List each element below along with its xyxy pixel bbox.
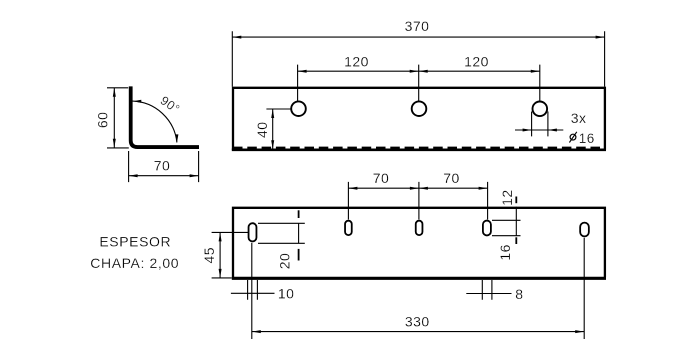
svg-text:70: 70 xyxy=(443,170,460,186)
dimension 120 text left xyxy=(344,54,369,70)
dimension 45 line xyxy=(219,232,221,278)
svg-text:ESPESOR: ESPESOR xyxy=(99,234,171,250)
svg-text:16: 16 xyxy=(579,131,595,146)
dimension 330 extension lines xyxy=(252,238,584,339)
hole 3 xyxy=(533,102,548,117)
dimension 45 arrows xyxy=(219,232,222,278)
dimension 70 arrows xyxy=(129,174,199,177)
svg-text:70: 70 xyxy=(154,157,171,173)
front view bend hidden dashed line xyxy=(233,147,605,149)
dimension 70 70 line xyxy=(348,187,487,189)
svg-text:60: 60 xyxy=(95,112,111,129)
dimension 10 line xyxy=(231,292,275,294)
svg-text:40: 40 xyxy=(254,121,270,138)
svg-text:45: 45 xyxy=(201,247,217,264)
dimension 20 extension lines xyxy=(258,223,305,243)
dimension 120 arrows xyxy=(298,70,540,73)
dimension 8 text xyxy=(515,286,523,302)
dimension 60 arrows xyxy=(113,88,116,148)
dimension 330 arrows xyxy=(252,330,584,333)
dimension 60 extension lines xyxy=(107,88,129,148)
svg-text:330: 330 xyxy=(405,314,430,330)
label diameter 16 xyxy=(569,131,594,146)
svg-text:12: 12 xyxy=(499,189,515,206)
dimension 8 line xyxy=(466,293,511,295)
dimension 70 70 arrows xyxy=(348,187,487,190)
dimension 60 line xyxy=(113,88,115,148)
dimension 40 extension line xyxy=(266,108,291,110)
dimension 370 extension lines xyxy=(232,31,604,86)
slot 3 xyxy=(416,221,423,235)
svg-text:CHAPA: 2,00: CHAPA: 2,00 xyxy=(90,255,179,271)
angle 90 arc xyxy=(132,101,177,142)
dimension 70 line xyxy=(129,175,199,177)
angle 90 text xyxy=(158,93,183,116)
angle 90 arc arrows xyxy=(133,100,179,143)
svg-text:20: 20 xyxy=(277,253,293,270)
dimension 10 extension lines xyxy=(248,280,258,300)
dimension 370 text xyxy=(405,18,430,34)
svg-text:120: 120 xyxy=(464,54,489,70)
diameter symbol xyxy=(570,134,576,140)
dimension 12 text xyxy=(499,189,515,206)
svg-text:16: 16 xyxy=(497,244,513,261)
note text ESPESOR CHAPA 2,00 xyxy=(90,234,179,272)
front view bottom edge solid xyxy=(232,148,606,151)
top view bottom edge xyxy=(232,277,606,280)
slot 2 xyxy=(345,221,352,235)
angle profile L view xyxy=(131,86,199,147)
diameter 16 extension lines xyxy=(532,112,548,137)
svg-text:120: 120 xyxy=(344,54,369,70)
dimension 16 text xyxy=(497,244,513,261)
dimension 20 text xyxy=(277,253,293,270)
slot 5 xyxy=(580,223,589,237)
svg-text:3x: 3x xyxy=(571,110,587,126)
dimension 40 text xyxy=(254,121,270,138)
dimension 70 text right xyxy=(443,170,460,186)
dimension 40 line xyxy=(272,109,274,149)
dimension 8 extension lines xyxy=(482,280,492,300)
dimension 330 text xyxy=(405,314,430,330)
dimension 370 arrows xyxy=(232,36,604,39)
slot 1 xyxy=(249,223,257,241)
dimension 120 extension lines xyxy=(298,65,540,101)
hole 2 xyxy=(412,101,427,116)
dimension 70 (left view) extension lines xyxy=(129,151,199,182)
dimension 70 text left xyxy=(373,170,390,186)
dimension 120 text right xyxy=(464,54,489,70)
dimension 12 16 line with outside arrow stubs xyxy=(515,197,517,204)
dimension 70 text xyxy=(154,157,171,173)
front view plate outline xyxy=(233,88,605,150)
svg-text:10: 10 xyxy=(278,286,295,302)
dimension 120 line xyxy=(298,70,540,72)
dimension 370 line xyxy=(232,36,604,38)
diameter 16 arrows xyxy=(523,129,557,132)
hole 1 xyxy=(291,101,306,116)
top view plate outline xyxy=(233,208,605,277)
svg-text:370: 370 xyxy=(405,18,430,34)
diameter 16 dimension line xyxy=(515,129,563,131)
dimension 60 text xyxy=(95,112,111,129)
svg-text:8: 8 xyxy=(515,286,523,302)
svg-text:70: 70 xyxy=(373,170,390,186)
label 3x xyxy=(571,110,587,126)
dimension 40 arrows xyxy=(271,109,274,149)
dimension 20 line with outside arrow stubs xyxy=(298,210,300,218)
dimension 70 70 extension lines xyxy=(348,182,487,220)
dimension 45 text xyxy=(201,247,217,264)
dimension 45 extension lines xyxy=(212,232,249,278)
dimension 12 16 extension lines xyxy=(492,220,521,235)
dimension 10 text xyxy=(278,286,295,302)
slot 4 xyxy=(483,221,491,236)
dimension 330 line xyxy=(252,331,584,333)
